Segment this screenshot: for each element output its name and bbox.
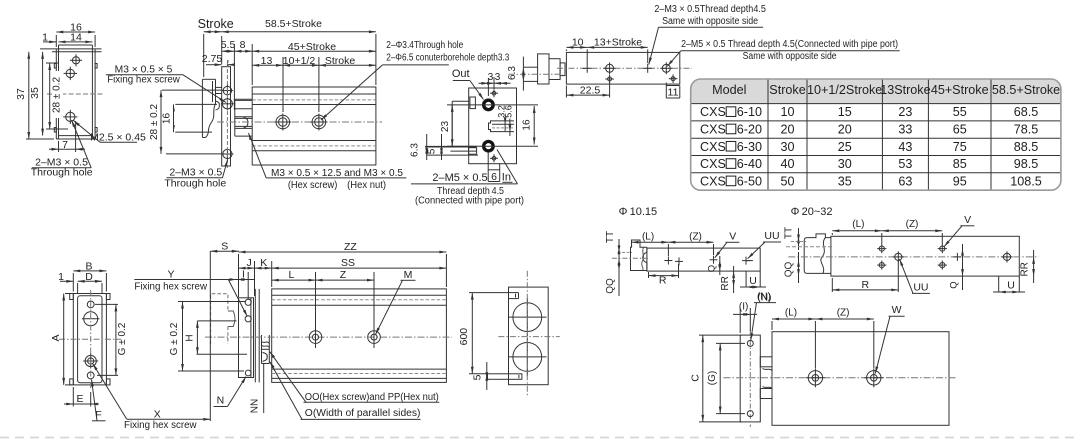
svg-text:Same with opposite side: Same with opposite side: [743, 51, 837, 62]
leader through hole view2: [223, 160, 228, 178]
view4 rod centerline: [509, 73, 564, 75]
view10 break squiggles: [763, 369, 773, 371]
svg-text:53: 53: [898, 157, 912, 171]
view10 screw 1: [808, 371, 822, 385]
dim Q view9: [962, 244, 964, 290]
view3 small cross bottom: [492, 157, 496, 161]
svg-text:Fixing hex screw: Fixing hex screw: [134, 282, 207, 293]
view9 hole 1b: [879, 263, 884, 268]
svg-text:CXS: CXS: [700, 105, 726, 119]
dim 11 box: [665, 83, 667, 99]
leader O width: [270, 362, 302, 420]
view1 side ear right bottom: [95, 128, 97, 133]
view5 ear right bottom: [106, 379, 110, 385]
svg-text:V: V: [964, 214, 971, 226]
view6 phantom table outline: [211, 294, 228, 344]
view9 center cross: [953, 256, 961, 258]
dim A: [63, 294, 65, 385]
svg-text:28 ± 0.2: 28 ± 0.2: [149, 104, 160, 141]
view4 rod: [523, 66, 537, 68]
dim (Z) view10: [815, 318, 873, 320]
view2 body bottom lines: [252, 140, 376, 142]
view6 hex nut box: [262, 348, 270, 350]
svg-text:2–M5 × 0.5 Thread depth 4.5(Co: 2–M5 × 0.5 Thread depth 4.5(Connected wi…: [681, 39, 898, 50]
svg-text:58.5+Stroke: 58.5+Stroke: [992, 83, 1060, 97]
S extension long: [209, 251, 211, 421]
svg-text:Fixing hex screw: Fixing hex screw: [124, 420, 197, 431]
view8 rod centerline: [612, 257, 648, 259]
view6 body top lines: [272, 294, 447, 296]
view5 centerline v: [90, 290, 92, 390]
svg-text:V: V: [729, 230, 736, 242]
svg-text:55: 55: [953, 105, 967, 119]
dim 16 view2: [173, 104, 175, 132]
svg-text:M3 × 0.5 × 12.5 and M3 × 0.5: M3 × 0.5 × 12.5 and M3 × 0.5: [271, 168, 403, 179]
view5 hole small bottom: [87, 372, 94, 379]
view7 tongue: [488, 374, 522, 380]
svg-text:G ± 0.2: G ± 0.2: [117, 322, 128, 355]
leader fixing hex screw: [183, 75, 226, 103]
svg-text:2–Φ3.4Through hole: 2–Φ3.4Through hole: [386, 40, 463, 51]
view10 plate centerline: [749, 330, 751, 427]
view3 tongue: [489, 121, 514, 132]
svg-text:25: 25: [838, 140, 852, 154]
svg-text:58.5+Stroke: 58.5+Stroke: [265, 18, 322, 30]
view5 hole big: [84, 312, 98, 326]
svg-text:Fixing hex screw: Fixing hex screw: [107, 75, 180, 86]
svg-text:U: U: [749, 275, 757, 287]
dim (L) view9: [832, 230, 882, 232]
svg-text:10: 10: [780, 105, 794, 119]
svg-text:28 ± 0.2: 28 ± 0.2: [52, 77, 63, 114]
svg-text:2.75: 2.75: [202, 53, 223, 65]
svg-text:Stroke: Stroke: [769, 83, 805, 97]
view2 plate screw bottom: [223, 149, 232, 158]
svg-text:13+Stroke: 13+Stroke: [594, 37, 642, 49]
view2 body top lines: [252, 93, 376, 95]
svg-text:CXS: CXS: [700, 140, 726, 154]
svg-text:C: C: [689, 374, 701, 382]
view10 plate screw top: [747, 340, 753, 346]
view2 body outline: [252, 87, 376, 165]
svg-text:TT: TT: [605, 231, 616, 243]
svg-text:(L): (L): [642, 231, 654, 242]
view6 table bracket: [239, 298, 254, 378]
view8 bar outline: [647, 248, 760, 271]
view9 hole 2a: [940, 246, 945, 251]
leader F: [92, 380, 98, 421]
svg-text:6.3: 6.3: [410, 143, 421, 157]
svg-text:TT: TT: [784, 227, 795, 239]
dim 1 view5: [60, 280, 73, 282]
U box view8: [745, 271, 747, 287]
leader Y: [228, 280, 247, 317]
svg-text:Y: Y: [167, 269, 174, 281]
leader counterbore: [321, 65, 383, 120]
dim 6.3 view3: [426, 134, 428, 160]
view1 hole M3 upper: [66, 69, 74, 77]
svg-text:6-50: 6-50: [737, 174, 762, 188]
bottom dotted border: [0, 437, 1076, 439]
view5 ear left bottom: [70, 379, 74, 385]
view2 table-plate connection lines: [216, 86, 222, 88]
svg-text:6-40: 6-40: [737, 157, 762, 171]
view6 bracket screw bottom: [245, 370, 251, 376]
svg-text:Out: Out: [452, 68, 470, 80]
view3 left thin bar: [425, 146, 477, 148]
svg-text:2–Φ6.5 conuterborehole depth3.: 2–Φ6.5 conuterborehole depth3.3: [386, 53, 509, 64]
leader M2.5: [74, 121, 101, 143]
dim TT view8: [618, 239, 620, 296]
svg-text:W: W: [892, 304, 902, 316]
view6 plate connector: [261, 335, 263, 364]
view6 body bottom lines: [272, 368, 447, 370]
dim H: [196, 321, 198, 354]
svg-text:75: 75: [953, 140, 967, 154]
svg-text:1: 1: [58, 271, 64, 283]
svg-text:108.5: 108.5: [1010, 174, 1042, 188]
view1 slide table outline: [58, 45, 60, 139]
svg-text:11: 11: [668, 87, 679, 99]
view7 body outline: [509, 287, 549, 385]
svg-text:78.5: 78.5: [1014, 122, 1039, 136]
svg-text:Model: Model: [712, 83, 746, 97]
svg-text:A: A: [50, 334, 62, 341]
svg-text:NN: NN: [249, 399, 260, 413]
svg-text:6-10: 6-10: [737, 105, 762, 119]
view5 hole small top: [87, 301, 94, 308]
dim 28±0.2 view2: [160, 90, 162, 154]
view1 side ear left bottom: [54, 128, 56, 133]
view2 hex screw hook: [244, 117, 248, 127]
svg-text:2–M3 × 0.5Thread depth4.5: 2–M3 × 0.5Thread depth4.5: [654, 4, 766, 15]
svg-text:16: 16: [162, 113, 173, 125]
leader V view9: [944, 226, 962, 247]
svg-text:(L): (L): [785, 307, 797, 318]
dim 7: [59, 148, 76, 150]
svg-text:Stroke: Stroke: [198, 17, 234, 31]
svg-text:3: 3: [495, 72, 501, 83]
view3 port horizontal centerlines: [447, 104, 538, 106]
view4 lower cross 2: [671, 77, 675, 81]
dim (G): [719, 343, 721, 413]
view4 hole circle 4: [662, 64, 670, 72]
view2 table section: [202, 78, 215, 80]
view5 big hole cross: [82, 318, 100, 320]
svg-text:35: 35: [29, 87, 41, 99]
svg-text:(Z): (Z): [689, 231, 702, 242]
dim 14: [59, 41, 93, 43]
view10 body outline: [772, 332, 949, 426]
svg-text:RR: RR: [720, 276, 731, 290]
svg-text:40: 40: [780, 157, 794, 171]
leader X: [93, 364, 127, 420]
svg-text:(Z): (Z): [837, 307, 850, 318]
svg-text:G ± 0.2: G ± 0.2: [169, 322, 180, 355]
view2 fixing screw pocket: [216, 101, 220, 110]
view2 centerline: [217, 121, 382, 123]
svg-text:E: E: [76, 393, 83, 405]
view4 hole circle 2: [606, 64, 614, 72]
svg-text:(L): (L): [852, 219, 864, 230]
view1 hole M2.5 top: [72, 57, 79, 64]
dim TT view9: [798, 228, 800, 250]
svg-text:85: 85: [953, 157, 967, 171]
svg-text:SS: SS: [341, 257, 355, 269]
dim D: [78, 280, 102, 282]
view4 hole cross 3: [643, 67, 652, 69]
leader 2-M3 thread: [649, 27, 659, 64]
view10 centerline: [724, 377, 958, 379]
view9 centerline: [788, 256, 1038, 258]
leader M: [376, 280, 403, 334]
svg-text:M3 × 0.5 × 5: M3 × 0.5 × 5: [115, 63, 173, 75]
svg-text:In: In: [502, 172, 511, 184]
svg-text:QQ: QQ: [605, 278, 616, 294]
view1 side ear right top: [95, 64, 97, 69]
view3 rod profile lines: [452, 100, 469, 102]
leader N: [228, 377, 247, 407]
dim (Z) view8: [668, 241, 713, 243]
svg-text:37: 37: [15, 88, 27, 100]
svg-text:RR: RR: [1020, 262, 1031, 276]
view1 hole M3 lower: [66, 112, 75, 121]
view8 rod end notch: [643, 252, 647, 262]
dim RR view9: [1033, 250, 1035, 283]
svg-text:14: 14: [70, 32, 82, 44]
svg-text:35: 35: [838, 174, 852, 188]
dim 5 view7: [486, 362, 488, 390]
dim 1 view1: [43, 41, 56, 43]
svg-text:Through hole: Through hole: [31, 166, 93, 178]
view4 hole centerline: [557, 67, 692, 69]
svg-text:CXS: CXS: [700, 157, 726, 171]
svg-text:R: R: [659, 274, 667, 286]
svg-text:U: U: [1007, 280, 1015, 292]
svg-text:88.5: 88.5: [1014, 140, 1039, 154]
view9 hole right: [1003, 253, 1010, 260]
view6 centerline: [205, 336, 452, 338]
svg-text:Q: Q: [707, 265, 718, 272]
dim 37: [28, 52, 30, 139]
svg-text:3: 3: [488, 72, 494, 83]
dim R view9: [832, 289, 898, 291]
leader through hole view1: [72, 120, 92, 168]
svg-text:M: M: [404, 269, 413, 281]
view4 block2: [549, 59, 560, 80]
svg-text:5: 5: [471, 374, 483, 380]
svg-text:6-20: 6-20: [737, 122, 762, 136]
view8 hole cross 4: [742, 260, 750, 262]
svg-text:45+Stroke: 45+Stroke: [931, 83, 989, 97]
view2 counterbore screw 2: [315, 118, 324, 127]
svg-text:33: 33: [898, 122, 912, 136]
svg-text:Z: Z: [340, 269, 347, 281]
dim G±0.2 view6: [182, 302, 184, 372]
leader UU view9: [900, 259, 914, 293]
view9 hole 1a: [879, 246, 884, 251]
dim ZZ: [239, 251, 447, 253]
svg-text:X: X: [154, 408, 161, 420]
svg-text:N: N: [217, 394, 225, 406]
svg-text:6.3: 6.3: [507, 66, 518, 80]
view10 screw 2: [867, 371, 881, 385]
view3 bar end box: [469, 148, 477, 155]
view2 guide block section: [234, 99, 236, 136]
svg-text:(Z): (Z): [906, 219, 919, 230]
dim SS J K: [239, 267, 447, 269]
view10 end plate: [740, 335, 760, 422]
view8 table surface dash: [618, 251, 632, 253]
dim 35: [42, 52, 44, 136]
svg-text:1: 1: [42, 31, 48, 43]
view4 lower cross 1: [608, 77, 612, 81]
dim C: [702, 335, 704, 422]
svg-text:(G): (G): [707, 371, 718, 385]
view6 phantom hook: [228, 311, 235, 327]
view5 hole double: [85, 355, 96, 366]
leader Out: [470, 81, 484, 100]
svg-text:95: 95: [953, 174, 967, 188]
view4 hole cross 1: [583, 67, 592, 69]
svg-text:H: H: [184, 334, 195, 341]
svg-text:23: 23: [898, 105, 912, 119]
leader (N): [751, 303, 757, 341]
svg-text:98.5: 98.5: [1014, 157, 1039, 171]
svg-text:8: 8: [240, 39, 246, 51]
dim Q view8: [719, 256, 721, 275]
svg-text:16: 16: [522, 119, 533, 131]
svg-text:CXS: CXS: [700, 174, 726, 188]
leader W: [875, 316, 890, 373]
dim (L) view8: [632, 241, 669, 243]
dim (Z) view9: [882, 230, 943, 232]
svg-text:UU: UU: [913, 281, 928, 293]
view6 body outline: [272, 289, 447, 383]
view6 bracket screw top: [245, 299, 251, 305]
svg-text:S: S: [221, 240, 228, 252]
view9 hole 2b: [940, 263, 945, 268]
view1 horizontal centerline: [47, 93, 104, 95]
view4 block3: [560, 63, 565, 76]
view7 centerline v: [526, 271, 528, 398]
dim B: [73, 270, 106, 272]
view8 block break curve: [642, 247, 644, 270]
dim 23: [451, 105, 453, 146]
svg-text:QQ: QQ: [784, 262, 795, 278]
dim 3 3: [479, 82, 511, 84]
dim 6 box: [487, 152, 489, 182]
view7 centerline h: [498, 336, 559, 338]
svg-text:(N): (N): [758, 293, 772, 304]
view5 table outline: [78, 296, 102, 383]
view9 bar outline: [831, 236, 1019, 276]
svg-text:R: R: [862, 279, 870, 291]
svg-text:(Connected with pipe port): (Connected with pipe port): [415, 195, 524, 207]
svg-text:L: L: [288, 269, 294, 281]
view8 hole cross 3: [710, 259, 718, 261]
svg-text:6-30: 6-30: [737, 140, 762, 154]
svg-text:Q: Q: [948, 281, 959, 288]
dim 6.3 view4: [522, 57, 524, 91]
view3 body outline: [469, 88, 517, 164]
view2 plate screw second: [222, 99, 232, 109]
svg-text:5.6: 5.6: [503, 105, 513, 118]
svg-text:5: 5: [427, 148, 438, 154]
dim E: [73, 403, 90, 405]
dim R view8: [649, 275, 679, 277]
view2 plate screw top: [223, 86, 231, 94]
view2 counterbore screw 1: [279, 118, 288, 127]
view9 left block: [804, 234, 831, 274]
view6 bracket screw mid: [245, 316, 251, 322]
dim L view6: [272, 279, 374, 281]
view3 small cross top: [492, 91, 496, 95]
view2 hex screw band: [235, 116, 252, 118]
svg-text:22.5: 22.5: [580, 85, 601, 97]
view8 left block: [631, 240, 647, 271]
leader UU view8: [748, 242, 766, 259]
view6 screw 1: [309, 331, 322, 344]
dim 22.5: [566, 94, 609, 96]
svg-text:OO(Hex screw)and PP(Hex nut): OO(Hex screw)and PP(Hex nut): [305, 392, 439, 403]
svg-text:Through hole: Through hole: [164, 177, 226, 189]
dim 13+Stroke: [587, 46, 648, 48]
view2 plate center dashed: [226, 63, 228, 168]
svg-text:20: 20: [838, 122, 852, 136]
svg-text:ZZ: ZZ: [344, 241, 357, 253]
view3 left tab: [470, 97, 476, 109]
view8 hole cross 1: [664, 260, 672, 262]
view5 body outline: [73, 294, 106, 385]
view9 block break curve: [821, 238, 826, 274]
view3 in port: [482, 140, 494, 152]
dim (L) view10: [772, 318, 815, 320]
view7 top slot: [509, 292, 519, 294]
svg-text:J: J: [246, 257, 251, 269]
leader OO PP: [270, 352, 306, 403]
dim 28±0.2 view1: [49, 63, 51, 129]
svg-text:30: 30: [780, 140, 794, 154]
svg-text:15: 15: [838, 105, 852, 119]
svg-text:10: 10: [572, 37, 584, 49]
U box view9: [998, 276, 1000, 292]
dim 5 view3: [441, 134, 443, 160]
dim 600: [471, 293, 473, 374]
svg-text:O(Width of parallel sides): O(Width of parallel sides): [305, 408, 421, 419]
dim I view6: [230, 279, 255, 281]
dim QQ view9: [798, 252, 800, 283]
view5 ear left top: [70, 294, 74, 300]
leader 2-M5 pipe port: [667, 51, 681, 67]
svg-text:600: 600: [458, 328, 470, 346]
view6 end plate strip: [254, 289, 256, 383]
svg-text:K: K: [260, 257, 267, 269]
svg-text:6: 6: [491, 171, 497, 183]
svg-text:5.5: 5.5: [221, 39, 236, 51]
svg-text:23: 23: [440, 121, 451, 133]
view10 plate screw bottom: [747, 411, 753, 417]
dim 10 view4: [566, 46, 587, 48]
view1 end-view body outline: [55, 49, 57, 139]
view2 end plate: [222, 67, 231, 166]
view6 break squiggle top: [262, 342, 270, 344]
dim S: [210, 250, 239, 252]
dim 16 view3: [533, 106, 535, 145]
svg-text:UU: UU: [764, 230, 779, 242]
dim QQ view8: [618, 258, 621, 265]
svg-text:68.5: 68.5: [1014, 105, 1039, 119]
